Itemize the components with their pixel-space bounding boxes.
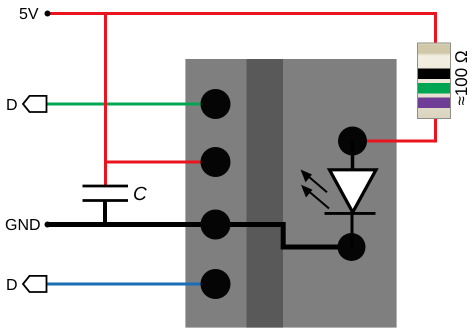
svg-text:≈100 Ω: ≈100 Ω: [452, 50, 471, 105]
pad 3 (gnd): [201, 210, 231, 240]
resistor band green: [418, 83, 450, 94]
LED emission arrow 1: [301, 170, 328, 193]
resistor R1 body: [418, 43, 451, 119]
resistor band black: [418, 69, 450, 80]
module dark stripe: [247, 59, 284, 328]
capacitor C bottom lead: [103, 200, 107, 225]
wire red vertical drop to capacitor: [104, 14, 107, 187]
pad 2 (red): [201, 147, 231, 177]
LED cathode bar: [325, 212, 376, 215]
svg-text:D: D: [6, 97, 18, 114]
wire green data line: [46, 103, 216, 106]
svg-text:GND: GND: [5, 217, 41, 234]
wire blue data line: [46, 283, 216, 286]
node 5V dot: [45, 11, 51, 17]
wire red resistor to LED pad: [352, 117, 436, 141]
wire red branch to pad 2: [104, 161, 216, 164]
LED D1 triangle: [330, 170, 377, 213]
wire red vertical drop to resistor: [434, 14, 437, 46]
connector D top (pentagon): [23, 96, 47, 112]
svg-text:C: C: [133, 184, 147, 205]
capacitor C plates: [83, 185, 129, 188]
resistor band purple: [418, 98, 450, 109]
wire GND black: [47, 225, 352, 248]
wire 5V top horizontal (red): [47, 12, 437, 15]
LED emission arrow 2: [301, 185, 329, 209]
node GND dot: [45, 222, 51, 228]
pad 1 (green): [201, 89, 231, 119]
pad 4 (blue): [201, 269, 231, 299]
connector D bottom (pentagon): [23, 276, 47, 292]
LED anode lead: [351, 141, 355, 170]
module body (grey board): [185, 59, 396, 328]
LED cathode lead: [351, 214, 354, 247]
svg-text:5V: 5V: [19, 6, 39, 23]
pad LED cathode: [338, 233, 366, 261]
svg-text:D: D: [6, 277, 18, 294]
pad LED anode: [338, 127, 367, 156]
